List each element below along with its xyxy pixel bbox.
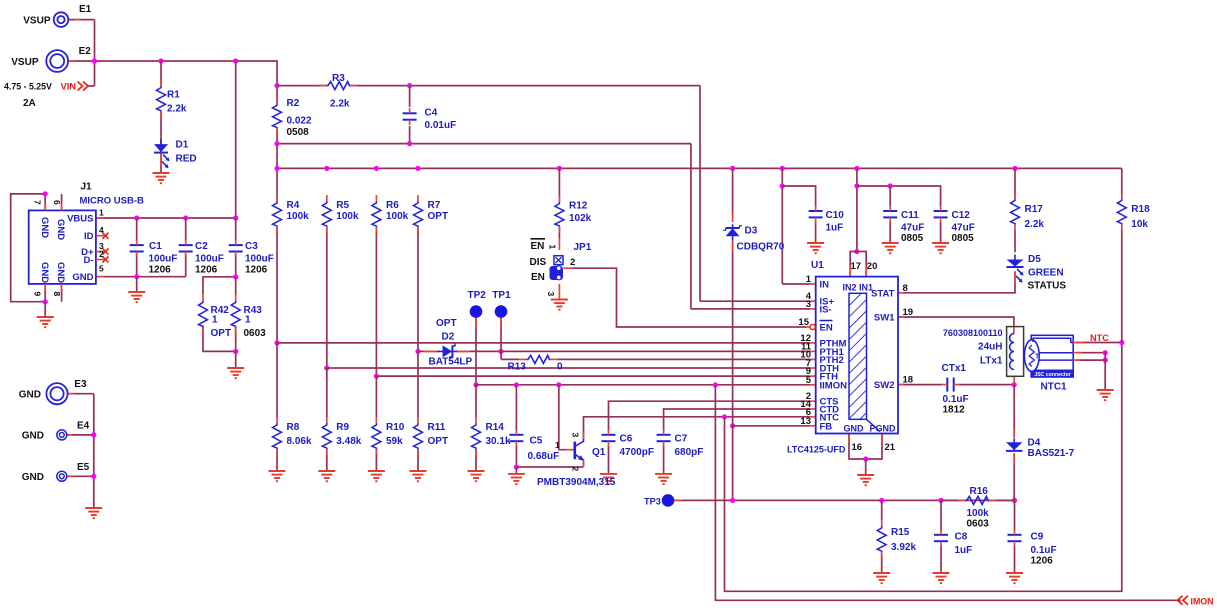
capacitor C7 xyxy=(657,434,671,436)
jumper JP1 pin1 option square xyxy=(554,256,563,265)
node junction rail IN x277 xyxy=(274,166,279,171)
svg-text:47uF: 47uF xyxy=(952,223,975,234)
svg-text:4: 4 xyxy=(99,225,104,235)
wire main column x277 top xyxy=(276,61,278,103)
svg-text:2: 2 xyxy=(570,257,575,268)
wire USB top pins loop xyxy=(11,194,46,302)
svg-text:GREEN: GREEN xyxy=(1028,267,1064,278)
svg-text:OPT: OPT xyxy=(211,328,232,339)
svg-text:3: 3 xyxy=(806,299,811,310)
wire C10 branch xyxy=(782,186,815,207)
wire JP1 pin2 stub xyxy=(564,267,572,269)
svg-text:E5: E5 xyxy=(77,462,90,473)
wire E3/E4/E5 column xyxy=(93,394,95,508)
wire NTC loop right side xyxy=(725,343,1122,592)
wire Q1 base drop xyxy=(559,385,566,450)
resistor R15 xyxy=(877,526,886,552)
svg-text:18: 18 xyxy=(903,375,914,386)
U1 hatched IN2/IN1 block xyxy=(849,293,867,419)
jumper JP1 shunt EN xyxy=(550,266,564,280)
node junction NTC1 pin2 xyxy=(1103,350,1108,355)
ground symbol R11 xyxy=(410,470,427,472)
node junction C4 bottom xyxy=(407,141,412,146)
diode D4 BAS521-7 xyxy=(1006,442,1022,450)
wire C4 link bottom xyxy=(409,126,411,144)
resistor R12 xyxy=(555,202,564,227)
svg-text:D5: D5 xyxy=(1028,254,1041,265)
node junction PTHM/R4/R8 xyxy=(274,340,279,345)
wire PTH1 line into D2 xyxy=(418,350,439,352)
wire VBUS line from USB xyxy=(96,217,236,219)
wire IN2/IN1 vertical x857 xyxy=(856,168,858,251)
node junction R7 top xyxy=(415,166,420,171)
svg-text:1: 1 xyxy=(99,208,104,218)
svg-text:3: 3 xyxy=(546,292,556,297)
svg-text:GND: GND xyxy=(55,219,66,240)
svg-text:R16: R16 xyxy=(970,486,989,497)
svg-text:16: 16 xyxy=(852,442,863,453)
svg-text:15: 15 xyxy=(798,317,809,328)
wire IS- vertical x691 xyxy=(690,144,692,309)
svg-text:GND: GND xyxy=(19,389,41,400)
wire pin17/20 bracket xyxy=(850,252,866,277)
svg-text:21: 21 xyxy=(885,442,896,453)
svg-text:19: 19 xyxy=(903,307,914,318)
svg-text:R18: R18 xyxy=(1131,204,1150,215)
svg-text:BAT54LP: BAT54LP xyxy=(429,357,473,368)
wire SW2 cap to coil xyxy=(959,384,1015,386)
wire E4 stub xyxy=(67,434,94,436)
wire C9 column xyxy=(1014,500,1016,530)
svg-text:13: 13 xyxy=(800,416,811,427)
svg-text:C5: C5 xyxy=(530,436,543,447)
svg-text:R8: R8 xyxy=(287,422,300,433)
turret E1 xyxy=(54,12,69,27)
svg-text:JSC connector: JSC connector xyxy=(1034,372,1071,378)
svg-text:1206: 1206 xyxy=(195,265,218,276)
net IMON chevron xyxy=(1183,596,1188,605)
node junction rail IS- at x277 xyxy=(274,141,279,146)
svg-text:GND: GND xyxy=(22,430,44,441)
ground symbol JP1 xyxy=(551,299,568,301)
svg-text:MICRO USB-B: MICRO USB-B xyxy=(80,196,145,207)
ground symbol R15 xyxy=(873,572,890,574)
svg-text:100uF: 100uF xyxy=(149,254,178,265)
resistor R5 xyxy=(322,201,331,227)
svg-text:PGND: PGND xyxy=(869,424,896,434)
ground symbol NTC1 xyxy=(1097,389,1114,391)
svg-text:R15: R15 xyxy=(891,527,910,538)
svg-text:E2: E2 xyxy=(79,46,92,57)
capacitor C12 xyxy=(934,210,948,212)
wire C4 link top xyxy=(409,86,411,107)
wire VSUP rail y61 xyxy=(69,60,278,62)
svg-text:1206: 1206 xyxy=(1031,556,1054,567)
wire NTC1 pin2 line xyxy=(1076,352,1105,354)
wire R42 branch xyxy=(203,277,236,295)
svg-text:17: 17 xyxy=(851,261,862,272)
svg-text:C3: C3 xyxy=(245,241,258,252)
wire FTH line to chip pin 9 xyxy=(376,375,810,377)
ground symbol R42/R43 xyxy=(227,367,244,369)
node junction LTx1 bottom xyxy=(1012,382,1017,387)
node junction pins 17/20 bracket xyxy=(854,249,859,254)
svg-text:R10: R10 xyxy=(386,422,405,433)
svg-text:IIMON: IIMON xyxy=(820,380,848,391)
svg-text:VSUP: VSUP xyxy=(11,57,39,68)
ground symbol C8 xyxy=(933,572,950,574)
wire R7 column to PTH1 xyxy=(417,227,419,351)
wire DTH line to chip pin 7 xyxy=(327,367,810,369)
wire C10 lower to ground xyxy=(815,221,817,243)
svg-text:1uF: 1uF xyxy=(955,545,973,556)
svg-text:R9: R9 xyxy=(336,422,349,433)
turret E2 xyxy=(46,50,68,72)
node junction D3 top xyxy=(730,166,735,171)
svg-text:C7: C7 xyxy=(675,434,688,445)
wire PTH2 line to chip pin 10 xyxy=(557,358,810,360)
svg-text:R17: R17 xyxy=(1025,204,1044,215)
svg-text:5: 5 xyxy=(99,264,104,274)
svg-text:IMON: IMON xyxy=(1191,596,1214,606)
wire rail IS- y143.6 xyxy=(277,143,691,145)
svg-text:EN: EN xyxy=(531,272,545,283)
svg-text:47uF: 47uF xyxy=(901,223,924,234)
svg-text:0.1uF: 0.1uF xyxy=(1031,545,1057,556)
svg-text:2.2k: 2.2k xyxy=(167,104,187,115)
svg-text:GND: GND xyxy=(39,262,50,283)
node junction USB pin7 xyxy=(43,191,48,196)
svg-text:3: 3 xyxy=(570,433,580,438)
wire IS+ vertical x700 xyxy=(699,86,701,302)
svg-text:2: 2 xyxy=(570,467,580,472)
capacitor C3 xyxy=(229,244,243,246)
node junction NTC/R18 xyxy=(1119,340,1124,345)
turret E4 xyxy=(57,430,67,440)
svg-text:Q1: Q1 xyxy=(592,447,606,458)
svg-text:R3: R3 xyxy=(332,73,345,84)
wire VIN chevron stub xyxy=(88,85,95,87)
svg-text:RED: RED xyxy=(176,154,197,165)
wire R12 column xyxy=(558,168,560,201)
svg-text:2: 2 xyxy=(99,249,104,259)
wire U1 ground stub xyxy=(865,459,867,475)
resistor R10 xyxy=(372,423,381,449)
wire NTC net to R18 xyxy=(1076,342,1122,344)
turret E5 xyxy=(57,471,67,481)
svg-text:TP3: TP3 xyxy=(644,496,661,506)
svg-text:D1: D1 xyxy=(176,140,189,151)
wire VSUP E1 to elbow xyxy=(68,19,94,21)
svg-text:5: 5 xyxy=(806,375,812,386)
node junction VBUS drop xyxy=(233,58,238,63)
wire C3 column xyxy=(235,218,237,241)
svg-text:C6: C6 xyxy=(620,434,633,445)
wire Q1 collector to NTC line xyxy=(584,417,811,439)
wire rail IS+ after R3 to x700 xyxy=(350,85,700,87)
svg-text:OPT: OPT xyxy=(428,211,449,222)
wire D2 cathode to jog junction xyxy=(456,350,501,352)
wire R18 column xyxy=(1121,168,1123,198)
svg-text:LTC4125-UFD: LTC4125-UFD xyxy=(787,445,846,455)
ground symbol C12 xyxy=(932,242,949,244)
node junction Q1 base branch xyxy=(556,382,561,387)
svg-text:0.68uF: 0.68uF xyxy=(528,451,560,462)
wire R2 to rails xyxy=(276,128,278,201)
resistor R14 xyxy=(472,423,481,449)
svg-text:STATUS: STATUS xyxy=(1028,281,1067,292)
svg-text:NTC: NTC xyxy=(1090,333,1109,343)
svg-text:0508: 0508 xyxy=(287,127,310,138)
wire R42 bottom join xyxy=(203,327,236,351)
svg-text:C11: C11 xyxy=(901,210,919,221)
wire USB GND line pin5 xyxy=(96,276,186,278)
J1 pin ID no-connect X xyxy=(103,233,109,239)
wire PTH2 line R13 left xyxy=(501,358,519,360)
resistor R1 xyxy=(157,86,166,112)
diode D2 BAT54LP xyxy=(443,345,453,357)
node junction C4 top xyxy=(407,83,412,88)
svg-text:R12: R12 xyxy=(569,201,588,212)
wire U1 GND/PGND join xyxy=(849,434,882,460)
wire R5 column to DTH xyxy=(326,227,328,368)
ground symbol C5 xyxy=(508,473,525,475)
svg-text:1: 1 xyxy=(212,315,218,326)
capacitor CTx1 xyxy=(946,378,948,392)
wire NTC1 pin3 line xyxy=(1076,359,1105,361)
ground symbol E3/E4/E5 xyxy=(85,507,102,509)
ground symbol C11 xyxy=(882,242,899,244)
svg-text:EN: EN xyxy=(820,323,833,334)
node junction D4/C9/R16 xyxy=(1012,498,1017,503)
svg-text:1: 1 xyxy=(245,315,251,326)
wire R15 column xyxy=(881,500,883,520)
node junction R12 top xyxy=(557,166,562,171)
node junction E5 xyxy=(91,474,96,479)
svg-text:GND: GND xyxy=(22,472,44,483)
resistor R11 xyxy=(414,423,423,449)
wire CTD line C7 xyxy=(664,409,810,431)
ground symbol R10 xyxy=(368,470,385,472)
svg-text:C12: C12 xyxy=(952,210,971,221)
node junction E4 xyxy=(91,432,96,437)
ground symbol D1 xyxy=(160,153,162,173)
node junction C1 top xyxy=(134,215,139,220)
svg-text:1: 1 xyxy=(806,274,812,285)
resistor R3 xyxy=(326,82,350,90)
wire JP1 pin1 stub xyxy=(558,238,560,250)
ground symbol C9 xyxy=(1006,572,1023,574)
svg-text:4700pF: 4700pF xyxy=(620,447,654,458)
svg-text:GND: GND xyxy=(39,217,50,238)
node junction R1 top xyxy=(158,58,163,63)
wire R43 bottom xyxy=(235,327,237,351)
test point TP1 xyxy=(495,305,508,318)
svg-text:IS-: IS- xyxy=(820,304,832,315)
svg-text:C2: C2 xyxy=(195,241,208,252)
wire R17 column xyxy=(1014,168,1016,198)
resistor R13 xyxy=(526,355,550,363)
wire VBUS column x235 xyxy=(235,61,237,218)
svg-text:1uF: 1uF xyxy=(826,223,844,234)
resistor R42 xyxy=(199,300,208,327)
svg-text:1206: 1206 xyxy=(149,265,172,276)
svg-text:9: 9 xyxy=(33,292,43,297)
svg-text:NTC1: NTC1 xyxy=(1041,382,1068,393)
wire D3 column xyxy=(732,168,734,216)
capacitor C2 xyxy=(179,244,193,246)
capacitor C6 xyxy=(602,434,616,436)
svg-text:CDBQR70: CDBQR70 xyxy=(737,242,785,253)
svg-text:20: 20 xyxy=(867,261,878,272)
svg-text:R14: R14 xyxy=(486,422,505,433)
svg-text:0.022: 0.022 xyxy=(287,116,312,127)
svg-text:J1: J1 xyxy=(81,182,93,193)
chip U1 LTC4125-UFD body xyxy=(816,277,898,434)
svg-text:59k: 59k xyxy=(386,436,403,447)
node junction C10 branch xyxy=(780,183,785,188)
svg-text:8: 8 xyxy=(52,292,62,297)
inductor LTx1 winding xyxy=(1010,334,1015,370)
svg-text:C4: C4 xyxy=(425,108,438,119)
svg-text:VBUS: VBUS xyxy=(67,214,93,225)
resistor R43 xyxy=(231,300,240,327)
svg-text:EN: EN xyxy=(531,241,545,252)
wire R43 column xyxy=(235,277,237,295)
wire C8 column xyxy=(940,500,942,530)
svg-text:D2: D2 xyxy=(442,331,455,342)
svg-text:LTx1: LTx1 xyxy=(980,356,1003,367)
wire R16 line xyxy=(991,499,1015,501)
svg-text:SW1: SW1 xyxy=(874,313,895,324)
wire IS+ into chip xyxy=(700,300,810,302)
svg-text:E4: E4 xyxy=(77,421,90,432)
svg-text:3.48k: 3.48k xyxy=(336,436,361,447)
svg-text:100k: 100k xyxy=(336,211,359,222)
resistor R18 xyxy=(1117,199,1126,225)
wire FB line to chip pin 13 xyxy=(733,425,810,427)
svg-text:0: 0 xyxy=(557,362,563,373)
wire IMON loop xyxy=(715,385,1180,601)
svg-text:IN2 IN1: IN2 IN1 xyxy=(843,283,874,293)
svg-text:0805: 0805 xyxy=(901,233,924,244)
svg-text:TP1: TP1 xyxy=(492,290,511,301)
svg-text:100k: 100k xyxy=(287,211,310,222)
wire Q1 emitter link xyxy=(516,466,583,468)
wire NTC1 ground column xyxy=(1104,353,1106,390)
wire rail IS+ y85.6 R3 segment xyxy=(277,85,326,87)
ground symbol C10 xyxy=(807,242,824,244)
svg-text:2.2k: 2.2k xyxy=(1025,219,1045,230)
wire LTx1 top stub xyxy=(1013,327,1015,334)
svg-text:D3: D3 xyxy=(745,225,758,236)
wire D4 column xyxy=(1013,385,1015,437)
svg-text:0.1uF: 0.1uF xyxy=(943,394,969,405)
svg-text:R11: R11 xyxy=(428,422,446,433)
resistor R7 xyxy=(414,201,423,227)
J1 pin stubs xyxy=(44,203,46,210)
node junction R15 top xyxy=(879,498,884,503)
svg-text:760308100110: 760308100110 xyxy=(943,328,1003,338)
node junction TP3/D3 xyxy=(730,498,735,503)
svg-text:100uF: 100uF xyxy=(195,254,224,265)
wire C7 ground stub xyxy=(663,446,665,474)
svg-text:FB: FB xyxy=(820,421,833,432)
capacitor C11 xyxy=(883,210,897,212)
wire C11 drop xyxy=(889,186,891,207)
node junction FTH/R6/R10 xyxy=(374,374,379,379)
svg-text:30.1k: 30.1k xyxy=(486,436,511,447)
J1 pin D- no-connect X xyxy=(103,257,109,263)
turret E3 xyxy=(46,383,67,404)
capacitor C4 xyxy=(403,112,417,114)
svg-text:2A: 2A xyxy=(23,98,36,109)
node junction C3 top xyxy=(233,215,238,220)
svg-text:IN: IN xyxy=(820,280,830,291)
svg-text:GND: GND xyxy=(72,272,93,283)
node junction FB / D3 column xyxy=(730,423,735,428)
diode D3 CDBQR70 xyxy=(726,228,740,236)
wire C11/C12 branch xyxy=(857,186,941,207)
wire IS- into chip xyxy=(691,308,810,310)
node junction C5 bottom / Q1 emitter xyxy=(514,464,519,469)
wire C6 ground stub xyxy=(608,446,610,474)
node junction IN2/IN1 drop xyxy=(854,166,859,171)
connector J1 MICRO USB-B body xyxy=(29,210,96,284)
svg-text:R7: R7 xyxy=(428,200,441,211)
ground symbol C6 xyxy=(600,473,617,475)
svg-text:VIN: VIN xyxy=(61,82,77,92)
wire R11 column xyxy=(417,351,419,417)
capacitor C10 xyxy=(809,210,823,212)
svg-text:R1: R1 xyxy=(167,90,180,101)
wire SW1 line xyxy=(898,317,1014,327)
wire C1 ground stub xyxy=(136,277,138,292)
node junction PTH1 jog / TP1 xyxy=(498,349,503,354)
ground symbol R9 xyxy=(318,470,335,472)
svg-text:1206: 1206 xyxy=(245,265,268,276)
node junction NTC loop xyxy=(722,414,727,419)
node junction E2/VIN xyxy=(92,58,97,63)
wire VIN vertical E1-E2-VIN xyxy=(94,20,96,86)
ground symbol U1 xyxy=(857,474,874,476)
wire R42/R43 ground stub xyxy=(235,351,237,368)
node junction C11 top xyxy=(888,183,893,188)
wire Q1 emitter stub xyxy=(583,466,585,468)
svg-text:8.06k: 8.06k xyxy=(287,436,312,447)
ground symbol R8 xyxy=(269,470,286,472)
wire R6 column to FTH xyxy=(375,227,377,376)
wire PTH2 jog down xyxy=(500,351,502,359)
transformer LTx1 box xyxy=(1007,327,1024,377)
svg-text:U1: U1 xyxy=(811,260,824,271)
wire CTS line C6 xyxy=(609,401,811,430)
wire STAT line xyxy=(898,273,1015,293)
svg-text:10k: 10k xyxy=(1131,219,1148,230)
node junction IMON loop top xyxy=(713,382,718,387)
svg-text:STAT: STAT xyxy=(871,288,895,299)
ground symbol J1 shield xyxy=(37,316,54,318)
svg-text:BAS521-7: BAS521-7 xyxy=(1028,448,1075,459)
resistor R8 xyxy=(273,423,282,449)
wire E5 stub xyxy=(67,475,94,477)
svg-text:JP1: JP1 xyxy=(574,242,592,253)
wire R1 column xyxy=(160,61,162,86)
svg-text:7: 7 xyxy=(33,200,43,205)
node junction C11 branch xyxy=(854,183,859,188)
svg-text:1: 1 xyxy=(547,245,557,250)
svg-text:680pF: 680pF xyxy=(675,447,704,458)
